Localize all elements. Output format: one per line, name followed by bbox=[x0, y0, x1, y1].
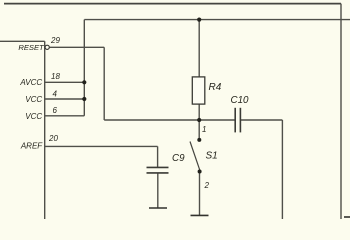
IC U1 box top edge bbox=[0, 40, 45, 42]
wire pin 18 AVCC bbox=[45, 81, 84, 83]
junction node AVCC rail pin 18 bbox=[82, 80, 86, 84]
svg-text:4: 4 bbox=[53, 90, 58, 99]
ground bar under S1 bbox=[191, 214, 209, 216]
wire horizontal net RESET-R4-C10 bbox=[104, 119, 235, 121]
switch S1 top contact dot bbox=[197, 138, 201, 142]
svg-text:20: 20 bbox=[48, 134, 58, 143]
wire vertical rail to VCC pins bbox=[83, 20, 85, 116]
svg-text:2: 2 bbox=[204, 181, 210, 190]
capacitor C9 plates bbox=[147, 167, 169, 173]
junction node R4/S1/C10/RESET bbox=[197, 118, 201, 122]
wire pin 4 VCC bbox=[45, 98, 84, 100]
capacitor C10 plates bbox=[235, 108, 240, 133]
svg-text:AVCC: AVCC bbox=[19, 78, 42, 87]
svg-text:29: 29 bbox=[50, 36, 60, 45]
wire stub bottom right corner bbox=[344, 216, 350, 218]
wire C10 right to bottom bbox=[240, 119, 282, 121]
junction node VCC rail pin 4 bbox=[82, 97, 86, 101]
svg-text:VCC: VCC bbox=[25, 112, 42, 121]
switch S1 bottom contact dot bbox=[198, 170, 202, 174]
svg-text:C10: C10 bbox=[231, 95, 250, 106]
svg-text:VCC: VCC bbox=[25, 95, 42, 104]
wire top horizontal VCC rail bbox=[84, 19, 350, 21]
bubble on RESET pin bbox=[45, 45, 49, 49]
svg-text:C9: C9 bbox=[172, 153, 185, 164]
wire C9 bottom bbox=[157, 173, 159, 208]
svg-text:6: 6 bbox=[53, 106, 58, 115]
top frame border line bbox=[4, 3, 341, 5]
wire pin 29 RESET bbox=[50, 46, 105, 48]
junction node at top rail and R4 bbox=[197, 18, 201, 22]
ground bar under C9 bbox=[149, 207, 167, 209]
wire right vertical rail bbox=[340, 4, 342, 219]
wire RESET vertical bbox=[103, 47, 105, 120]
wire AREF to C9 vertical bbox=[157, 146, 159, 167]
resistor R4 bbox=[192, 77, 205, 104]
svg-text:S1: S1 bbox=[206, 151, 218, 162]
wire S1 bottom bbox=[199, 172, 201, 216]
wire R4 bottom bbox=[198, 104, 200, 140]
wire pin 6 VCC bbox=[45, 115, 84, 117]
svg-text:R4: R4 bbox=[209, 82, 222, 93]
switch S1 lever bbox=[190, 142, 200, 172]
svg-text:18: 18 bbox=[51, 72, 60, 81]
svg-text:1: 1 bbox=[202, 125, 206, 134]
wire pin 20 AREF bbox=[45, 145, 158, 147]
svg-text:AREF: AREF bbox=[20, 141, 43, 150]
IC U1 box right edge bbox=[44, 41, 46, 219]
wire R4 top bbox=[198, 20, 200, 77]
svg-text:RESET: RESET bbox=[18, 43, 45, 52]
